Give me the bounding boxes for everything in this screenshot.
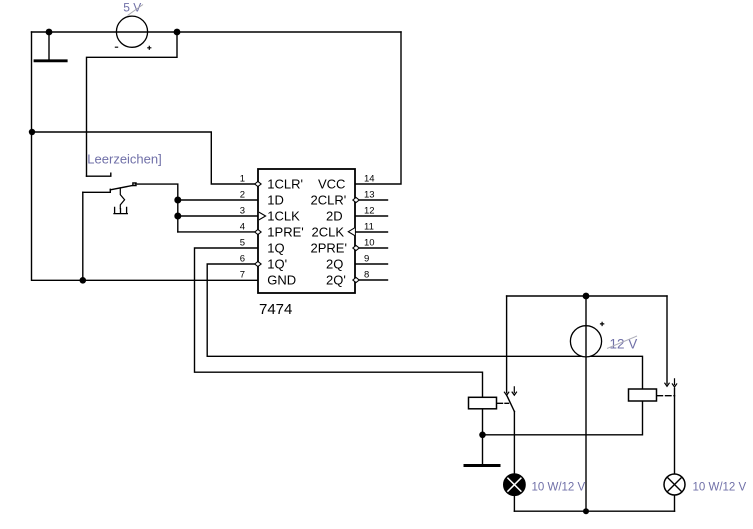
svg-text:1CLK: 1CLK: [267, 209, 300, 224]
svg-text:2Q': 2Q': [326, 273, 346, 288]
svg-text:4: 4: [240, 222, 245, 233]
svg-text:2PRE': 2PRE': [311, 241, 347, 256]
svg-text:12 V: 12 V: [610, 336, 638, 351]
svg-text:1Q': 1Q': [267, 257, 287, 272]
svg-text:10 W/12 V: 10 W/12 V: [693, 482, 747, 494]
svg-text:VCC: VCC: [318, 177, 345, 192]
svg-text:10 W/12 V: 10 W/12 V: [532, 482, 586, 494]
svg-text:5: 5: [240, 238, 245, 249]
svg-text:9: 9: [364, 254, 369, 265]
svg-text:6: 6: [240, 254, 245, 265]
svg-text:1Q: 1Q: [267, 241, 284, 256]
svg-text:2D: 2D: [326, 209, 343, 224]
svg-text:7: 7: [240, 270, 245, 281]
svg-text:13: 13: [364, 190, 375, 201]
svg-text:3: 3: [240, 206, 245, 217]
svg-text:12: 12: [364, 206, 375, 217]
svg-text:2Q: 2Q: [326, 257, 343, 272]
svg-text:GND: GND: [267, 273, 296, 288]
svg-text:11: 11: [364, 222, 374, 233]
svg-text:2CLR': 2CLR': [311, 193, 347, 208]
svg-text:8: 8: [364, 270, 369, 281]
svg-text:1: 1: [240, 174, 245, 185]
svg-text:1D: 1D: [267, 193, 284, 208]
svg-text:1PRE': 1PRE': [267, 225, 303, 240]
svg-text:2: 2: [240, 190, 245, 201]
svg-text:Leerzeichen]: Leerzeichen]: [87, 151, 161, 166]
svg-text:14: 14: [364, 174, 375, 185]
svg-text:1CLR': 1CLR': [267, 177, 303, 192]
svg-text:7474: 7474: [259, 301, 292, 318]
svg-text:2CLK: 2CLK: [312, 225, 345, 240]
svg-text:10: 10: [364, 238, 375, 249]
